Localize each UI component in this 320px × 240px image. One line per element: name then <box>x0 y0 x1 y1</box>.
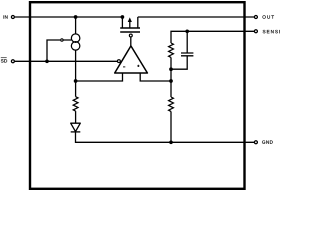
node junction C1 bottom with divider <box>169 67 173 71</box>
pin terminal OUT <box>254 16 257 19</box>
pin label IN <box>4 15 8 18</box>
node junction SENSE to capacitor C1 <box>185 29 189 33</box>
wire R2 bottom lead <box>170 111 172 142</box>
resistor R3 reference <box>73 97 78 111</box>
Q1 drain terminal <box>137 17 139 28</box>
node junction IN rail to current source <box>74 15 78 19</box>
node junction IN rail to Q1 source <box>121 15 125 19</box>
border frame <box>30 2 245 189</box>
wire op-amp non-inverting leg to feedback node <box>140 73 171 81</box>
shutdown bubble on current source <box>61 39 63 41</box>
wire current source top lead <box>75 17 77 34</box>
op-amp plus input mark <box>137 65 139 67</box>
node junction reference node <box>74 79 78 83</box>
wire op-amp output to Q1 gate <box>130 37 132 46</box>
inverting shutdown bubble on op-amp U1 <box>117 60 120 63</box>
C1 bottom lead <box>171 56 187 69</box>
wire shutdown branch to current source <box>47 40 71 61</box>
pin label SENSE <box>263 30 282 33</box>
pin terminal IN <box>11 16 14 19</box>
node junction SD line to shutdown branch <box>45 59 49 63</box>
wire OUT line <box>138 16 254 18</box>
wire R3 to diode D1 <box>75 111 77 123</box>
Q1 channel bar <box>120 27 140 29</box>
node junction feedback node <box>169 79 173 83</box>
op-amp minus input mark <box>123 66 125 68</box>
wire IN rail <box>15 16 123 18</box>
node junction R2 on GND line <box>169 140 173 144</box>
wire reference resistor top lead <box>75 81 77 97</box>
Q1 bulk arrow <box>129 21 131 28</box>
wire divider middle segment <box>170 69 172 97</box>
resistor R2 bottom feedback <box>169 97 174 111</box>
wire current source bottom lead to reference node <box>75 50 77 81</box>
pin label SD (active low) <box>1 59 7 62</box>
op-amp U1 error amplifier <box>115 46 148 73</box>
wire SD line <box>15 60 117 62</box>
pin label GND <box>262 140 273 143</box>
overline on SD <box>1 57 7 59</box>
pin label OUT <box>263 15 274 18</box>
capacitor C1 <box>171 31 193 69</box>
C1 top lead <box>186 31 188 53</box>
resistor R1 top feedback <box>169 43 174 57</box>
wire SENSE line <box>171 31 254 43</box>
pin terminal SENSE <box>254 30 257 33</box>
transistor Q1 pass PMOS <box>120 17 140 32</box>
current source I1 <box>71 34 80 50</box>
C1 plates <box>181 53 193 56</box>
diode D1 <box>71 123 81 132</box>
pin terminal GND <box>254 141 257 144</box>
Q1 gate bar <box>120 31 140 33</box>
gate bubble of Q1 <box>129 34 132 37</box>
wire D1 cathode to GND line <box>76 132 255 142</box>
pin terminal SD <box>11 60 14 63</box>
Q1 source terminal <box>121 17 123 28</box>
wire op-amp inverting leg to reference node <box>76 73 123 81</box>
wire R1 bottom lead <box>170 57 172 69</box>
